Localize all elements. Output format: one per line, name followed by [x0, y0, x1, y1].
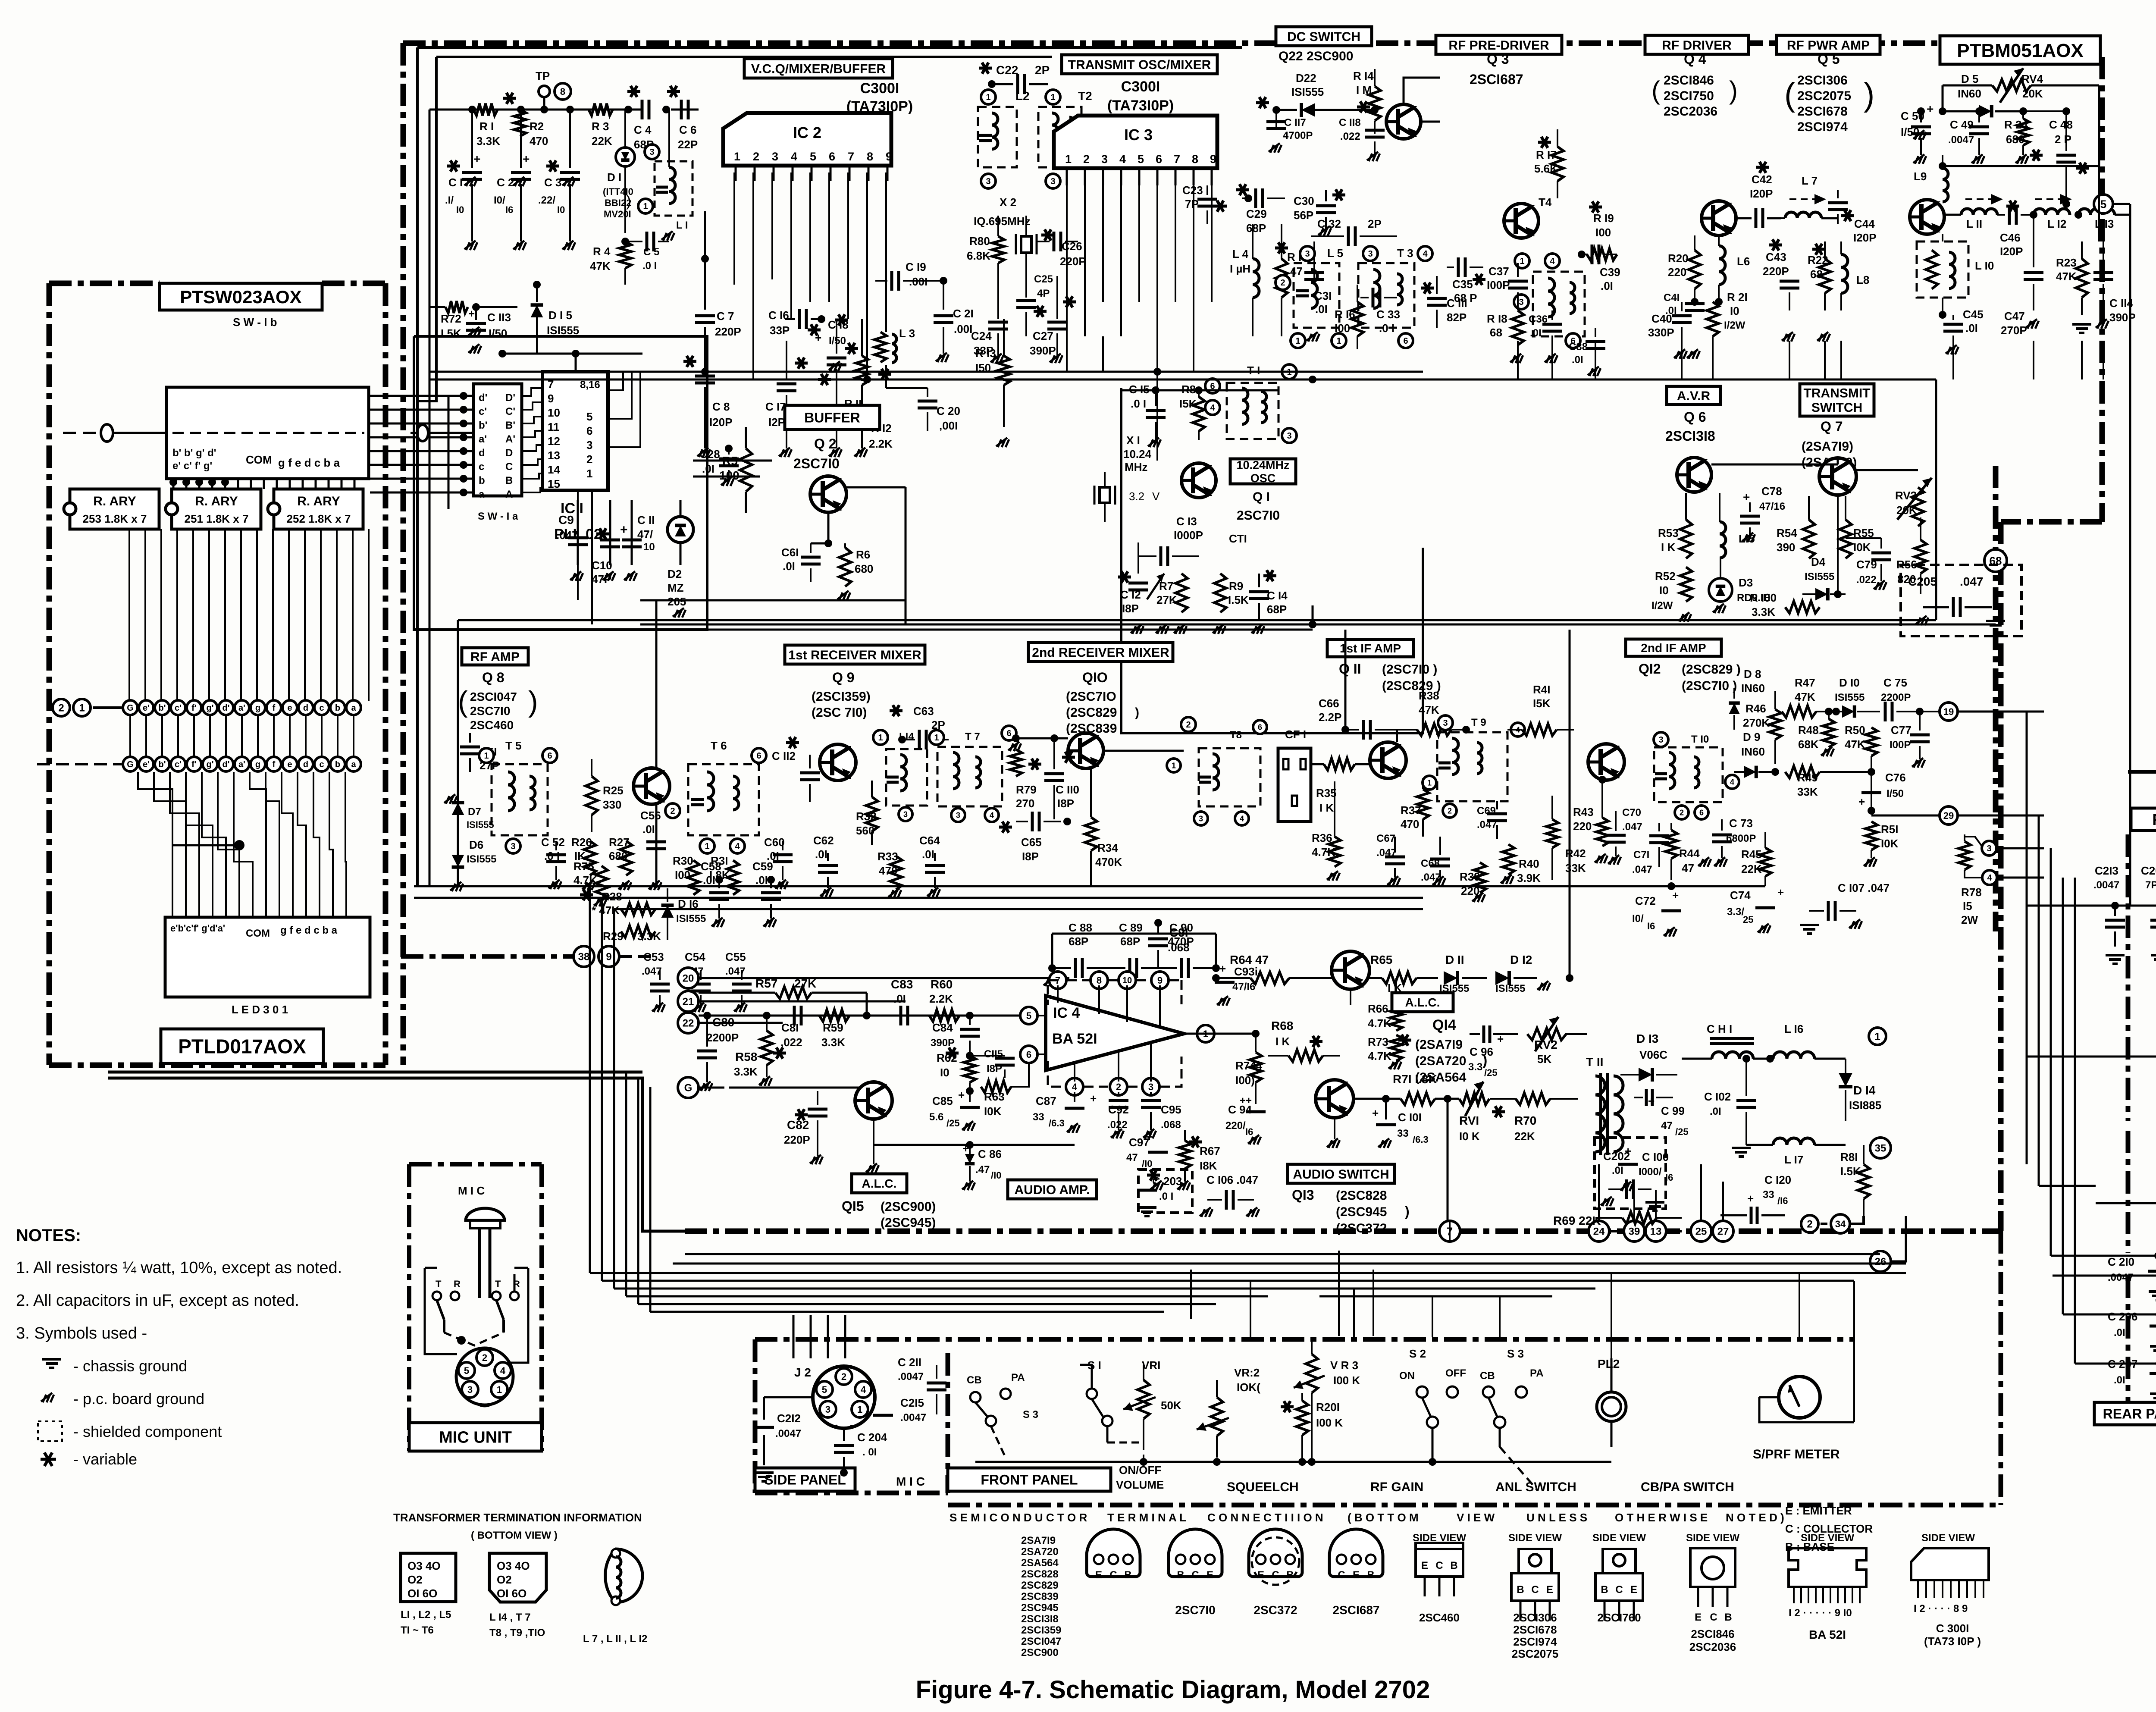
svg-text:+: + [1219, 962, 1226, 975]
svg-text:TP: TP [536, 69, 550, 82]
svg-text:5: 5 [1138, 153, 1144, 166]
node package L1 L2 L5 T1-T6 [401, 1553, 456, 1636]
node terminal row G..a lower [37, 757, 361, 771]
resistor R57 27K [699, 977, 867, 1016]
svg-text:BUFFER: BUFFER [804, 410, 860, 426]
svg-text:5: 5 [1026, 1010, 1031, 1021]
capacitor C203 .01 shielded [1137, 1170, 1192, 1216]
resistor R39 220 [1460, 862, 1486, 902]
svg-text:b': b' [159, 760, 166, 769]
svg-text:21: 21 [683, 996, 694, 1008]
wire receiver to audio drops [771, 624, 1162, 886]
capacitor C18 1/50 [815, 314, 849, 457]
resistor R68 1K [1268, 989, 1340, 1062]
svg-text:ANL SWITCH: ANL SWITCH [1495, 1480, 1576, 1494]
svg-text:f: f [273, 760, 276, 769]
svg-text:MZ: MZ [667, 581, 684, 594]
svg-text:1: 1 [934, 733, 939, 743]
svg-text:3: 3 [956, 811, 960, 819]
capacitor C60 .01 [764, 836, 793, 889]
svg-text:2SC2036: 2SC2036 [1664, 104, 1717, 119]
svg-text:L9: L9 [1914, 170, 1927, 183]
svg-text:3.3K: 3.3K [476, 135, 500, 147]
svg-text:4: 4 [791, 150, 797, 163]
svg-text:(2SC7I0 ): (2SC7I0 ) [1682, 679, 1737, 693]
wire feeder drops [1250, 1273, 1854, 1422]
svg-text:270K: 270K [1743, 716, 1770, 729]
svg-text:29: 29 [1943, 810, 1954, 821]
wire main-board right dash-dot border [2001, 57, 2102, 1231]
svg-text:U N L E S S: U N L E S S [1526, 1511, 1587, 1524]
meter S/PRF [1759, 1376, 1854, 1422]
svg-text:/25: /25 [1675, 1126, 1689, 1137]
capacitor C9 .047 [556, 500, 588, 581]
svg-text:2SCI687: 2SCI687 [1333, 1603, 1380, 1617]
svg-text:S W - I b: S W - I b [233, 316, 277, 329]
svg-text:): ) [1482, 1052, 1487, 1069]
svg-text:QI4: QI4 [1432, 1017, 1456, 1033]
svg-text:C64: C64 [919, 834, 940, 847]
transformer T7 [929, 726, 1016, 822]
svg-text:220: 220 [1668, 266, 1686, 279]
svg-text:IC 3: IC 3 [1124, 126, 1153, 144]
svg-text:2SC829: 2SC829 [1021, 1580, 1059, 1591]
svg-text:(: ( [458, 685, 468, 718]
svg-text:Q I: Q I [1253, 490, 1270, 504]
svg-text:3.2: 3.2 [1129, 490, 1144, 503]
capacitor C75 2200P [1880, 676, 1936, 721]
svg-text:C 52: C 52 [541, 836, 565, 849]
svg-text:1: 1 [643, 202, 648, 211]
inductor L9 [1914, 155, 1948, 216]
svg-text:1: 1 [705, 842, 709, 851]
svg-text:68: 68 [1490, 326, 1502, 339]
svg-text:2: 2 [1448, 806, 1452, 815]
svg-text:R23: R23 [2056, 256, 2077, 269]
wire bus bundle 3 [614, 908, 1423, 910]
svg-text:820: 820 [1897, 573, 1916, 586]
svg-text:CB: CB [967, 1374, 982, 1386]
svg-text:a: a [351, 760, 356, 769]
resistor R8 15K [1179, 383, 1205, 440]
svg-text:6.8K: 6.8K [967, 249, 990, 262]
svg-text:3: 3 [825, 1404, 830, 1415]
svg-text:+: + [1743, 490, 1750, 504]
svg-text:4P: 4P [1037, 288, 1050, 299]
svg-text:MV20I: MV20I [604, 209, 631, 219]
svg-text:R20I: R20I [1316, 1401, 1340, 1414]
svg-text:47: 47 [1126, 1152, 1138, 1163]
svg-text:R. ARY: R. ARY [93, 494, 136, 508]
resistor R42 33K [1546, 796, 1586, 880]
wire Q7 wiring [1711, 458, 1918, 598]
svg-text:+: + [815, 331, 821, 344]
svg-text:e': e' [143, 760, 150, 769]
wire PA output top rail [1939, 162, 2103, 241]
capacitor C111 82P [1421, 276, 1467, 328]
svg-text:9: 9 [886, 150, 892, 163]
capacitor C204 .01 [834, 1428, 887, 1477]
svg-text:+: + [1372, 1107, 1379, 1119]
wire shaft to SW-1a [411, 425, 473, 441]
node S/PRF METER label [1753, 1447, 1840, 1461]
resistor R2 470 [503, 93, 548, 147]
svg-text:b: b [335, 703, 340, 713]
svg-text:10.24MHz: 10.24MHz [1236, 459, 1289, 472]
capacitor C107 .047 [1800, 881, 1890, 934]
node RF AMP label [458, 648, 538, 732]
svg-text:L 7 , L II , L I2: L 7 , L II , L I2 [583, 1633, 647, 1645]
svg-text:C I20: C I20 [1764, 1173, 1791, 1186]
svg-text:f': f' [191, 703, 196, 713]
ic package C3001 sip [1911, 1532, 1989, 1648]
wire 22 node rail [699, 1012, 1029, 1019]
svg-text:C 75: C 75 [1883, 676, 1907, 689]
capacitor C76 1/50 [1858, 771, 1906, 815]
resistor R38 47K [1397, 689, 1470, 742]
svg-text:/25: /25 [1484, 1067, 1498, 1078]
svg-text:4: 4 [1550, 257, 1555, 266]
svg-text:+: + [620, 523, 628, 537]
svg-text:PA: PA [1530, 1367, 1544, 1379]
ic IC2 TA7310P [723, 113, 892, 166]
svg-text:C II0: C II0 [1056, 783, 1079, 796]
svg-text:+: + [1672, 889, 1679, 902]
svg-text:B: B [1724, 1612, 1732, 1623]
resistor R19 100 [1587, 201, 1617, 260]
svg-text:IN60: IN60 [1741, 682, 1765, 695]
svg-text:L 4: L 4 [1232, 248, 1249, 260]
capacitor C35 68P [1447, 257, 1485, 304]
svg-text:330P: 330P [1648, 326, 1674, 339]
svg-text:3: 3 [1987, 844, 1991, 853]
svg-text:(: ( [1784, 76, 1795, 113]
wire alc feed rail [1216, 978, 1250, 978]
svg-text:SQUEELCH: SQUEELCH [1227, 1480, 1299, 1494]
svg-text:27K: 27K [1156, 593, 1177, 606]
svg-text:T8 , T9 ,TIO: T8 , T9 ,TIO [489, 1627, 545, 1639]
svg-text:R I4: R I4 [1353, 69, 1374, 82]
svg-text:I8P: I8P [1057, 797, 1074, 810]
svg-text:7P: 7P [1185, 198, 1199, 210]
svg-text:C87: C87 [1036, 1094, 1056, 1107]
svg-text:8: 8 [1192, 153, 1198, 166]
svg-text:25: 25 [1743, 914, 1753, 925]
capacitor C27 390P [1030, 276, 1076, 363]
svg-text:e'b'c'f' g'd'a': e'b'c'f' g'd'a' [170, 923, 225, 934]
svg-text:C45: C45 [1963, 308, 1984, 321]
svg-text:1: 1 [484, 751, 489, 761]
svg-text:C 48: C 48 [2049, 118, 2073, 131]
svg-text:C29: C29 [1246, 207, 1267, 220]
diode D11 1S1555 [1439, 953, 1487, 994]
svg-text:1: 1 [857, 1404, 862, 1415]
svg-text:C65: C65 [1021, 836, 1042, 849]
svg-text:C10: C10 [592, 559, 612, 572]
resistor R17 5.6K [1534, 129, 1564, 198]
svg-text:5: 5 [586, 410, 592, 423]
wire SW-1a input bus [370, 392, 473, 509]
svg-text:C 96: C 96 [1470, 1045, 1493, 1058]
svg-text:C55: C55 [725, 950, 746, 963]
node circled 68 [1984, 466, 2007, 931]
svg-text:D: D [505, 447, 513, 459]
wire rear panel bottom border [2128, 1253, 2156, 1402]
capacitor C28 .01 [699, 445, 739, 486]
svg-text:4: 4 [500, 1365, 506, 1376]
svg-text:A.L.C.: A.L.C. [862, 1177, 897, 1190]
node SW-1b label [233, 316, 277, 329]
svg-text:C 7: C 7 [717, 310, 734, 323]
svg-text:++: ++ [1240, 1095, 1252, 1107]
svg-text:+: + [1090, 1092, 1097, 1105]
capacitor C210 .0047 [2096, 1252, 2156, 1300]
svg-text:SIDE VIEW: SIDE VIEW [1921, 1532, 1975, 1544]
ic IC1 PLL02 [542, 372, 608, 542]
svg-text:390P: 390P [1030, 344, 1056, 357]
svg-text:R43: R43 [1573, 806, 1594, 818]
node 2nd IF AMP label [1626, 639, 1741, 693]
capacitor C89 68P [1112, 921, 1173, 978]
svg-text:O3 4O: O3 4O [497, 1559, 530, 1572]
svg-text:RF AMP: RF AMP [470, 650, 520, 664]
node circled 3 4 R78 [1959, 832, 2044, 926]
diode D9 1N60 [1734, 731, 1779, 778]
svg-text:I/50: I/50 [489, 327, 507, 340]
svg-text:C8I: C8I [781, 1021, 799, 1034]
wire main-board top dash-dot border [403, 41, 1940, 46]
svg-text:47/: 47/ [637, 528, 653, 541]
resistor R47 47K [1775, 676, 1840, 718]
svg-text:ISI885: ISI885 [1849, 1099, 1881, 1112]
svg-text:b: b [335, 760, 340, 769]
svg-text:e': e' [143, 703, 150, 713]
svg-text:.0I: .0I [755, 874, 768, 887]
svg-text:C22: C22 [996, 63, 1018, 77]
resistor R71 1.8K [1354, 1072, 1459, 1105]
svg-text:VRI: VRI [1142, 1359, 1160, 1372]
svg-text:R57: R57 [755, 977, 777, 990]
svg-text:5.6: 5.6 [929, 1111, 943, 1123]
svg-text:R79: R79 [1016, 783, 1037, 796]
svg-text:E: E [1095, 1569, 1102, 1581]
svg-text:D I3: D I3 [1636, 1032, 1658, 1045]
svg-text:C66: C66 [1319, 697, 1339, 710]
svg-text:g f e d c b a: g f e d c b a [278, 456, 340, 469]
svg-text:C I9: C I9 [906, 260, 926, 273]
resistor R72 1.5K [429, 301, 480, 340]
capacitor C59 .01 [752, 860, 781, 927]
svg-text:e' c' f' g': e' c' f' g' [172, 460, 212, 472]
capacitor C43 220P [1763, 218, 1799, 342]
svg-text:1: 1 [734, 150, 740, 163]
svg-text:22P: 22P [678, 138, 698, 151]
svg-text:T 7: T 7 [965, 731, 980, 743]
resistor R6 680 [828, 543, 873, 600]
svg-text:E : EMITTER: E : EMITTER [1785, 1504, 1852, 1517]
inductor CH1 [1682, 1022, 1774, 1063]
svg-text:C II: C II [637, 514, 655, 527]
svg-text:): ) [1135, 705, 1139, 720]
svg-text:C I4: C I4 [1267, 589, 1288, 602]
transistor Q13 [1316, 1080, 1354, 1148]
svg-text:D22: D22 [1296, 72, 1316, 85]
svg-text:X 2: X 2 [1000, 196, 1016, 209]
svg-text:C28: C28 [699, 448, 720, 461]
svg-text:6: 6 [1006, 729, 1011, 738]
resistor R20 220 [1668, 235, 1701, 306]
svg-text:C42: C42 [1752, 173, 1772, 186]
svg-text:2: 2 [1116, 1082, 1121, 1092]
svg-text:1: 1 [1427, 778, 1432, 787]
resistor R5 100 [719, 427, 752, 513]
svg-text:47K: 47K [1795, 690, 1815, 703]
svg-text:L E D 3 0 1: L E D 3 0 1 [232, 1003, 288, 1016]
wire J2 feeders [793, 1315, 845, 1358]
svg-text:TRANSMIT: TRANSMIT [1804, 386, 1871, 401]
resistor R27 680 [609, 836, 632, 890]
node Q5 label [1784, 51, 1874, 134]
resistor R201 100K [1281, 1393, 1343, 1462]
svg-text:E: E [1206, 1569, 1213, 1581]
node terminal row G..a upper [123, 700, 361, 715]
svg-text:C44: C44 [1854, 217, 1875, 230]
svg-text:2SCI687: 2SCI687 [1470, 72, 1523, 87]
svg-text:RF PRE-DRIVER: RF PRE-DRIVER [1448, 38, 1549, 53]
svg-text:R38: R38 [1419, 689, 1439, 702]
svg-text:A.V.R: A.V.R [1677, 389, 1711, 403]
svg-text:.0I: .0I [1601, 279, 1613, 292]
svg-text:47: 47 [1290, 265, 1303, 278]
resistor R59 3.3K [819, 1010, 849, 1049]
capacitor C100 1000/16 [1618, 1144, 1673, 1191]
svg-text:R 3: R 3 [592, 120, 609, 133]
svg-text:J 2: J 2 [794, 1366, 811, 1379]
wire audio top rail [1052, 934, 1216, 968]
svg-text:R25: R25 [603, 784, 624, 797]
svg-text:13: 13 [548, 449, 560, 462]
wire IC4 out [1197, 1033, 1256, 1035]
svg-text:I8P: I8P [1022, 850, 1039, 863]
svg-text:.0I: .0I [1665, 305, 1677, 317]
inductor L11 [1943, 194, 2003, 230]
diode D5 1N60 [1939, 72, 2027, 117]
svg-text:.0I: .0I [783, 560, 795, 573]
svg-text:C83: C83 [891, 978, 913, 991]
inductor L4 1uH [1230, 224, 1259, 336]
svg-text:C72: C72 [1635, 894, 1656, 907]
svg-text:I0 K: I0 K [1459, 1130, 1480, 1143]
svg-text:RV4: RV4 [2021, 72, 2043, 85]
resistor R33 470 [877, 850, 902, 898]
capacitor C31 .01 [1304, 241, 1332, 342]
wire front-panel dash border [755, 1339, 1854, 1493]
diode D22 1S1555 [1256, 72, 1345, 117]
svg-text:C 8: C 8 [712, 400, 730, 413]
svg-text:PA: PA [1011, 1372, 1025, 1383]
svg-text:15: 15 [548, 477, 560, 490]
capacitor C29 68P [1236, 184, 1285, 235]
svg-text:B': B' [505, 420, 515, 431]
node switch SW-1b box [166, 387, 369, 479]
capacitor C94 220/16 [1225, 1095, 1266, 1144]
node circled 7 [1439, 1221, 1460, 1242]
ic package BA521 sip [1789, 1532, 1866, 1641]
svg-text:S 3: S 3 [1507, 1347, 1524, 1360]
svg-text:(2SC900): (2SC900) [881, 1200, 936, 1214]
svg-text:R63: R63 [984, 1090, 1005, 1103]
svg-text:b' b' g' d': b' b' g' d' [172, 447, 216, 459]
svg-text:2200P: 2200P [706, 1031, 739, 1044]
svg-text:3: 3 [1050, 177, 1055, 186]
svg-text:IOK(: IOK( [1237, 1381, 1260, 1394]
svg-text:5K: 5K [1537, 1053, 1551, 1066]
svg-text:V I E W: V I E W [1457, 1511, 1495, 1524]
svg-text:68P: 68P [1069, 935, 1088, 948]
svg-text:3.3/: 3.3/ [1727, 906, 1744, 918]
diode D8 1N60 [1729, 668, 1765, 730]
svg-text:BA 52I: BA 52I [1052, 1031, 1097, 1047]
svg-text:MIC UNIT: MIC UNIT [439, 1429, 512, 1447]
svg-text:47/16: 47/16 [1759, 501, 1785, 512]
svg-text:R67: R67 [1200, 1144, 1220, 1157]
svg-text:b': b' [479, 420, 487, 431]
svg-text:C2I3: C2I3 [2095, 864, 2118, 877]
svg-text:10.24: 10.24 [1123, 448, 1152, 461]
capacitor C10 47P [592, 500, 620, 586]
capacitor C82 220P [784, 1091, 827, 1164]
svg-text:4: 4 [1987, 873, 1992, 883]
wire SW-1b dashed axis [172, 432, 364, 434]
svg-text:C 6: C 6 [679, 123, 696, 136]
svg-text:C 86: C 86 [978, 1148, 1002, 1160]
svg-text:I/50: I/50 [1887, 788, 1904, 800]
svg-text:1: 1 [878, 733, 883, 743]
node NOTES heading [16, 1226, 81, 1245]
svg-text:390: 390 [1777, 541, 1795, 554]
transistor Q7 2SA719 [1819, 458, 1856, 495]
svg-text:I µH: I µH [1230, 262, 1250, 275]
svg-text:ISI555: ISI555 [547, 324, 579, 337]
svg-text:6: 6 [547, 751, 552, 761]
svg-text:R35: R35 [1316, 787, 1337, 800]
svg-text:1: 1 [497, 1384, 502, 1395]
svg-text:3: 3 [1287, 431, 1291, 441]
wire J4 jack lines [2027, 1036, 2156, 1203]
wire PLL block frame [414, 336, 707, 630]
capacitor C101 33/6.3 [1372, 1099, 1429, 1148]
svg-text:.047: .047 [1960, 575, 1984, 588]
svg-text:2: 2 [1280, 278, 1285, 288]
svg-text:A: A [505, 489, 513, 500]
resistor R100 3.3K [1750, 591, 1820, 618]
svg-text:D4: D4 [1811, 555, 1826, 568]
node LED301 display [165, 917, 370, 1016]
wire mid horizontal rail A [640, 600, 906, 888]
svg-text:D I4: D I4 [1853, 1084, 1876, 1097]
svg-text:C82: C82 [787, 1118, 809, 1132]
svg-text:I20P: I20P [2000, 245, 2023, 258]
svg-text:R3I: R3I [711, 854, 728, 867]
resistor R63 10K [970, 1054, 1029, 1118]
svg-text:(: ( [1651, 76, 1660, 105]
node package 2SC1687 [1329, 1529, 1383, 1617]
svg-text:C43: C43 [1766, 251, 1786, 263]
inductor L6 [1715, 235, 1750, 306]
svg-text:C I02: C I02 [1704, 1090, 1731, 1103]
capacitor C52 .01 [541, 836, 566, 889]
svg-text:220: 220 [1573, 820, 1592, 833]
